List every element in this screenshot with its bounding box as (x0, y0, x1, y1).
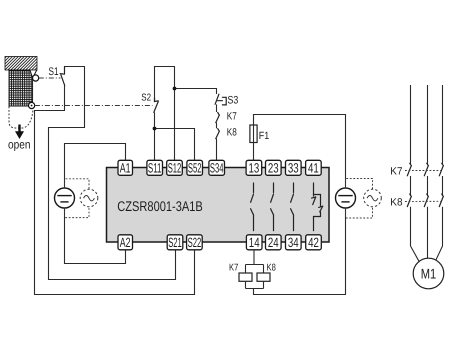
contactor contact K8 motor (407, 194, 411, 207)
svg-text:24: 24 (268, 235, 279, 250)
svg-text:34: 34 (288, 235, 299, 250)
wire right supply down to coils (254, 208, 346, 295)
open direction arrow (15, 125, 24, 140)
contactor contact K7 motor (439, 163, 443, 176)
wire S2 bottom to S11 (154, 112, 156, 160)
AC supply alternative right (364, 189, 382, 207)
svg-text:13: 13 (249, 161, 260, 176)
terminal S11 (147, 160, 163, 175)
wire S3 to K7 (216, 104, 218, 112)
terminal A1 (118, 160, 133, 175)
terminal 13 (246, 160, 262, 175)
svg-text:K8: K8 (390, 196, 402, 208)
svg-text:K7: K7 (229, 262, 238, 273)
coil K8 (257, 273, 270, 281)
motor phase wires bottom (411, 207, 443, 261)
AC supply alternative left (80, 189, 98, 207)
coil K7 (239, 273, 252, 281)
wire 13 up to top-right supply (254, 115, 346, 189)
dashed link right supply bottom (346, 207, 373, 218)
safety relay U1 body (107, 168, 330, 243)
wire S1 bottom to S22 (35, 85, 195, 294)
svg-text:S12: S12 (168, 161, 182, 176)
wire A1 to supply (65, 144, 126, 189)
fuse F1 (250, 125, 257, 143)
mechanical link roller1 to S1 (39, 77, 61, 79)
wire 14 to coil split (246, 250, 264, 273)
terminal A2 (118, 235, 133, 250)
contactor contact K7 motor (407, 163, 411, 176)
terminal S34 (209, 160, 225, 175)
svg-text:CZSR8001-3A1B: CZSR8001-3A1B (117, 198, 203, 214)
wire junction to S52 (155, 129, 195, 161)
contactor contact K8 motor (439, 194, 443, 207)
door roller contact 2 (29, 102, 35, 108)
mechanical link K7 row (405, 170, 441, 172)
svg-text:S11: S11 (148, 161, 162, 176)
terminal 33 (286, 160, 302, 175)
svg-text:S1: S1 (49, 66, 59, 78)
motor phase wires middle (411, 176, 443, 195)
wire K8 to S34 (216, 139, 218, 161)
svg-text:A1: A1 (120, 161, 131, 176)
contactor contact K8 motor (424, 194, 428, 207)
wire supply to A2 (65, 208, 126, 264)
svg-text:K7: K7 (227, 110, 237, 122)
wire S2 top loop to S12 (155, 67, 175, 161)
svg-text:F1: F1 (259, 130, 270, 142)
junction dot S2/S52 (153, 127, 157, 131)
svg-text:41: 41 (308, 161, 319, 176)
mechanical link roller2 to S2 (35, 105, 153, 107)
contact K7 series (216, 113, 220, 123)
terminal 41 (306, 160, 322, 175)
svg-text:K7: K7 (390, 166, 402, 178)
relay NO contact 293 (291, 183, 294, 231)
switch S1 (60, 67, 64, 86)
svg-text:K8: K8 (267, 262, 277, 273)
door roller contact 1 (33, 75, 39, 81)
svg-text:K8: K8 (227, 127, 237, 139)
motor phase wires top (411, 85, 443, 164)
svg-text:S22: S22 (188, 235, 202, 250)
svg-text:14: 14 (249, 235, 260, 250)
terminal 14 (246, 235, 262, 250)
dashed link left supply top (65, 179, 90, 189)
terminal S52 (187, 160, 203, 175)
door open position dashed outline (9, 107, 33, 129)
wire K7 to K8 (216, 123, 218, 129)
terminal S22 (187, 235, 203, 250)
svg-text:S2: S2 (141, 93, 151, 104)
svg-text:S21: S21 (168, 235, 182, 250)
terminal 34 (286, 235, 302, 250)
relay NO contact 273 (271, 183, 274, 231)
guard frame hatched bar (5, 57, 37, 71)
wire S1 top to S21 (49, 67, 176, 280)
terminal 24 (266, 235, 282, 250)
terminal 23 (266, 160, 282, 175)
svg-text:23: 23 (268, 161, 279, 176)
relay NO contact 253 (251, 183, 254, 231)
mechanical link K8 row (405, 200, 441, 202)
junction dot S3 feed (173, 87, 177, 91)
DC supply source left (55, 188, 75, 208)
svg-text:33: 33 (288, 161, 299, 176)
contactor contact K7 motor (424, 163, 428, 176)
svg-text:S52: S52 (188, 161, 202, 176)
guard door panel (9, 70, 37, 106)
dashed link right supply top (346, 179, 373, 190)
svg-text:S3: S3 (228, 94, 239, 106)
pushbutton S3 (215, 94, 226, 105)
relay NC contact 41-42 (312, 183, 323, 231)
svg-text:S34: S34 (210, 161, 224, 176)
terminal S12 (167, 160, 183, 175)
wire coils rejoin (246, 281, 264, 288)
terminal S21 (167, 235, 183, 250)
svg-text:open: open (8, 138, 31, 152)
svg-text:42: 42 (308, 235, 319, 250)
switch S2 (154, 98, 159, 112)
svg-text:M1: M1 (421, 265, 437, 281)
wire feed to S3 (175, 89, 217, 95)
DC supply source right (336, 188, 356, 208)
dashed link left supply bottom (65, 207, 90, 218)
terminal 42 (306, 235, 322, 250)
svg-text:A2: A2 (120, 235, 131, 250)
contact K8 series (216, 129, 220, 139)
motor M1 (413, 258, 444, 289)
